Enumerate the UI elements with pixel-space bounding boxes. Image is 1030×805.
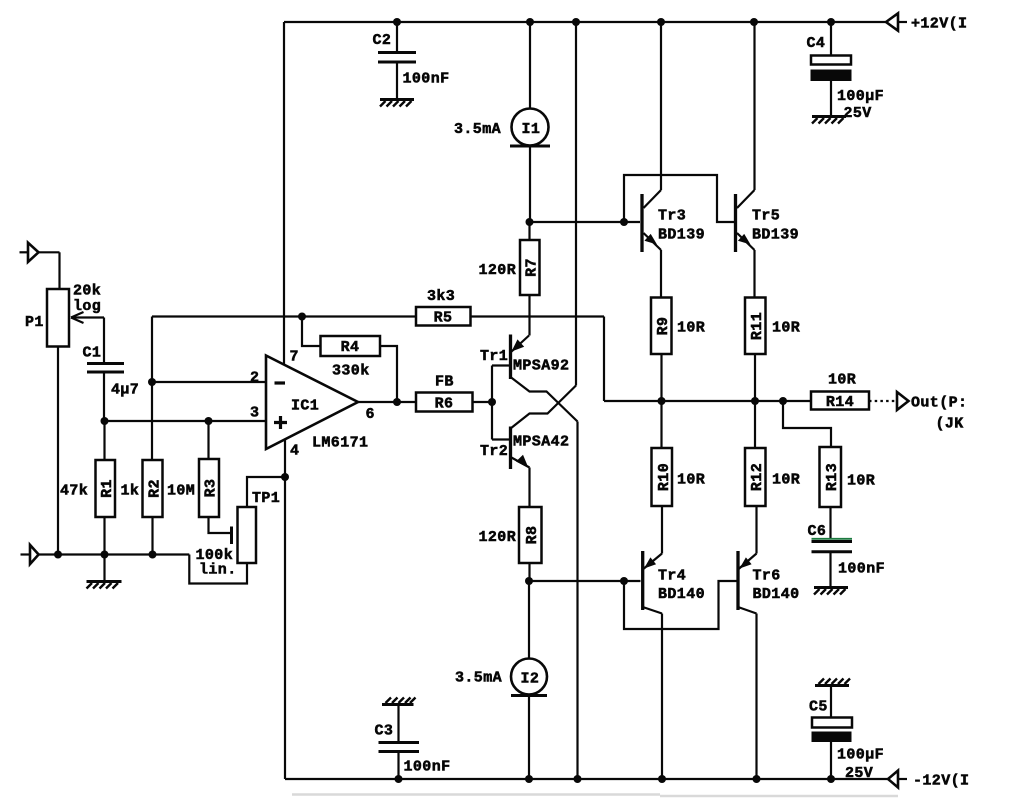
svg-text:BD140: BD140 <box>658 586 705 603</box>
svg-text:R2: R2 <box>147 479 164 498</box>
node: R8 / I2 / Tr4 base junction <box>525 577 533 585</box>
resistor R3 <box>199 421 232 544</box>
svg-text:4: 4 <box>290 443 299 460</box>
current source I1 <box>510 18 550 222</box>
scan artifact line <box>292 795 898 797</box>
trim pot TP1 <box>189 477 285 584</box>
ground (C6) <box>814 588 848 595</box>
wiper arrow of P1 <box>71 312 104 364</box>
svg-text:IC1: IC1 <box>291 398 319 415</box>
node: R11/R12 output <box>751 397 759 405</box>
wire: Tr3/Tr5 base link <box>624 175 734 222</box>
resistor R4 <box>298 313 397 403</box>
resistor R9 <box>651 298 672 402</box>
node: R1 bottom / ground <box>101 551 109 559</box>
transistor Tr4 BD140 <box>643 551 666 783</box>
resistor R5 <box>152 307 604 401</box>
svg-text:330k: 330k <box>332 363 370 380</box>
svg-text:C3: C3 <box>375 723 394 740</box>
svg-text:log: log <box>73 298 101 315</box>
resistor R8 <box>519 507 542 581</box>
terminal arrow -12V <box>888 771 907 788</box>
wire: junction to Tr3 base <box>530 221 641 223</box>
wire: junction to Tr4 base <box>529 580 641 582</box>
wire: Tr1 collector drop to -12V rail <box>576 422 578 780</box>
wire: V- rise from rail to op-amp pin 4 <box>284 440 286 779</box>
svg-text:10R: 10R <box>828 372 856 389</box>
resistor R6 ferrite bead FB <box>358 393 492 413</box>
capacitor C5 electrolytic <box>812 686 853 784</box>
transistor Tr1 MPSA92 <box>492 335 578 422</box>
svg-text:BD139: BD139 <box>752 227 799 244</box>
svg-text:Out(P:: Out(P: <box>911 395 967 412</box>
resistor R10 <box>652 401 674 554</box>
svg-text:3.5mA: 3.5mA <box>455 670 502 687</box>
svg-text:(JK: (JK <box>936 416 964 433</box>
svg-text:1k: 1k <box>121 483 140 500</box>
svg-text:BD139: BD139 <box>658 227 705 244</box>
transistor Tr2 MPSA42 <box>492 386 576 508</box>
svg-text:120R: 120R <box>479 262 517 279</box>
svg-text:BD140: BD140 <box>753 586 800 603</box>
wire: ground node line <box>39 553 190 555</box>
resistor R13 <box>783 401 841 538</box>
svg-text:R4: R4 <box>341 339 360 356</box>
node: R13 tap <box>779 397 787 405</box>
wire: -12V bottom supply rail <box>285 778 888 780</box>
wire: V+ drop from rail to op-amp pin 7 <box>283 22 285 364</box>
svg-text:3: 3 <box>250 405 259 422</box>
input terminal (top) <box>20 243 60 289</box>
svg-text:47k: 47k <box>60 483 88 500</box>
wire: ground stub <box>103 555 105 581</box>
svg-text:Tr3: Tr3 <box>658 208 686 225</box>
svg-text:100nF: 100nF <box>403 71 450 88</box>
svg-text:R10: R10 <box>656 463 673 491</box>
wire: Tr4/Tr6 base link <box>624 581 737 629</box>
svg-text:100nF: 100nF <box>404 759 451 776</box>
svg-text:R7: R7 <box>524 258 541 277</box>
svg-text:R9: R9 <box>655 317 672 336</box>
svg-text:R8: R8 <box>524 526 541 545</box>
svg-text:LM6171: LM6171 <box>312 435 368 452</box>
node: R2 bottom <box>149 551 157 559</box>
resistor R14 <box>811 392 869 412</box>
svg-text:10R: 10R <box>847 473 875 490</box>
svg-text:R12: R12 <box>749 463 766 491</box>
terminal arrow Out <box>897 392 909 410</box>
svg-text:10R: 10R <box>677 320 705 337</box>
capacitor C6 <box>812 539 853 586</box>
svg-text:FB: FB <box>435 374 454 391</box>
svg-text:100µF: 100µF <box>837 88 884 105</box>
svg-text:MPSA42: MPSA42 <box>513 434 569 451</box>
ground (C5) <box>815 679 850 686</box>
svg-text:C5: C5 <box>809 699 828 716</box>
svg-text:2: 2 <box>250 370 259 387</box>
wire: output bus <box>604 400 811 402</box>
svg-text:lin.: lin. <box>199 562 237 579</box>
svg-text:R14: R14 <box>826 394 854 411</box>
wire: Tr2 collector rise to +12V rail <box>575 22 577 386</box>
capacitor C3 <box>379 705 420 784</box>
svg-text:7: 7 <box>290 349 299 366</box>
svg-text:R1: R1 <box>99 479 116 498</box>
svg-text:3.5mA: 3.5mA <box>454 121 501 138</box>
svg-text:10M: 10M <box>167 483 195 500</box>
capacitor C2 <box>378 18 416 99</box>
svg-text:3k3: 3k3 <box>427 288 455 305</box>
svg-text:Tr6: Tr6 <box>753 568 781 585</box>
ground (C2) <box>380 100 414 107</box>
capacitor C1 <box>87 364 124 422</box>
svg-text:25V: 25V <box>844 105 872 122</box>
svg-text:C2: C2 <box>373 32 392 49</box>
svg-text:100nF: 100nF <box>838 561 885 578</box>
capacitor C4 electrolytic <box>811 18 852 115</box>
svg-text:C6: C6 <box>808 523 827 540</box>
svg-text:4µ7: 4µ7 <box>111 382 139 399</box>
resistor R2 <box>143 317 164 555</box>
svg-text:P1: P1 <box>25 314 44 331</box>
svg-text:120R: 120R <box>479 529 517 546</box>
transistor Tr5 BD139 <box>736 18 759 298</box>
terminal arrow +12V <box>886 13 907 30</box>
svg-text:C1: C1 <box>83 345 102 362</box>
svg-text:-12V(I: -12V(I <box>913 773 969 790</box>
resistor R7 <box>520 222 541 336</box>
svg-text:25V: 25V <box>845 765 873 782</box>
resistor R1 <box>96 421 117 555</box>
svg-text:R3: R3 <box>203 479 220 498</box>
svg-text:10R: 10R <box>772 320 800 337</box>
svg-text:6: 6 <box>366 406 375 423</box>
wire: base tie vertical <box>491 366 493 440</box>
ground (C3) <box>382 698 416 705</box>
transistor Tr6 BD140 <box>738 551 761 783</box>
svg-text:R13: R13 <box>824 463 841 491</box>
svg-text:R6: R6 <box>435 396 454 413</box>
svg-text:20k: 20k <box>73 283 101 300</box>
svg-text:TP1: TP1 <box>252 490 280 507</box>
node: pin4 / TP1 junction <box>281 473 289 481</box>
svg-text:Tr2: Tr2 <box>480 443 508 460</box>
ground (C4) <box>812 117 846 124</box>
svg-text:R5: R5 <box>434 310 453 327</box>
node: P1 bottom <box>54 551 62 559</box>
svg-text:100µF: 100µF <box>837 747 884 764</box>
svg-text:Tr5: Tr5 <box>752 208 780 225</box>
op-amp IC1 LM6171 <box>101 356 359 450</box>
svg-text:I1: I1 <box>522 121 541 138</box>
resistor R12 <box>745 401 766 554</box>
node: R9/R10 output <box>658 397 666 405</box>
node: Tr1/Tr2 base tie <box>488 398 496 406</box>
svg-text:10R: 10R <box>677 472 705 489</box>
transistor Tr3 BD139 <box>620 18 665 298</box>
input terminal (bottom) <box>21 545 39 564</box>
svg-text:C4: C4 <box>807 35 826 52</box>
svg-text:R11: R11 <box>749 312 766 340</box>
potentiometer P1 <box>47 289 69 555</box>
svg-text:10R: 10R <box>772 472 800 489</box>
svg-text:Tr4: Tr4 <box>658 568 686 585</box>
svg-text:I2: I2 <box>521 671 540 688</box>
node: I1 / R7 / Tr3 base junction <box>526 218 534 226</box>
wire: +12V top supply rail <box>284 21 886 23</box>
svg-text:Tr1: Tr1 <box>480 348 508 365</box>
wire: dashed output link <box>869 400 895 402</box>
resistor R11 <box>745 298 766 402</box>
ground (input node) <box>87 582 122 589</box>
current source I2 <box>511 581 547 783</box>
svg-text:MPSA92: MPSA92 <box>513 358 569 375</box>
svg-text:+12V(I: +12V(I <box>911 16 967 33</box>
